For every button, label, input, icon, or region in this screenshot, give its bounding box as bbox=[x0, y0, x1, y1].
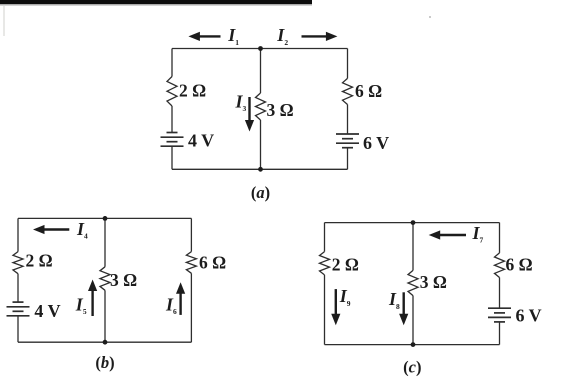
svg-text:6 V: 6 V bbox=[363, 133, 389, 153]
svg-text:3 Ω: 3 Ω bbox=[110, 270, 137, 290]
svg-text:2 Ω: 2 Ω bbox=[332, 254, 359, 274]
svg-text:6 V: 6 V bbox=[516, 305, 542, 325]
svg-text:(c): (c) bbox=[403, 358, 421, 377]
svg-text:(a): (a) bbox=[251, 183, 270, 202]
svg-text:2 Ω: 2 Ω bbox=[26, 251, 53, 271]
svg-text:6 Ω: 6 Ω bbox=[506, 254, 533, 274]
svg-text:(b): (b) bbox=[95, 353, 114, 372]
svg-text:4 V: 4 V bbox=[188, 131, 214, 151]
svg-text:3 Ω: 3 Ω bbox=[420, 272, 447, 292]
svg-text:6 Ω: 6 Ω bbox=[355, 81, 382, 101]
svg-text:4 V: 4 V bbox=[34, 301, 60, 321]
svg-text:2 Ω: 2 Ω bbox=[179, 80, 206, 100]
svg-text:3 Ω: 3 Ω bbox=[267, 100, 294, 120]
svg-text:6 Ω: 6 Ω bbox=[199, 253, 226, 273]
